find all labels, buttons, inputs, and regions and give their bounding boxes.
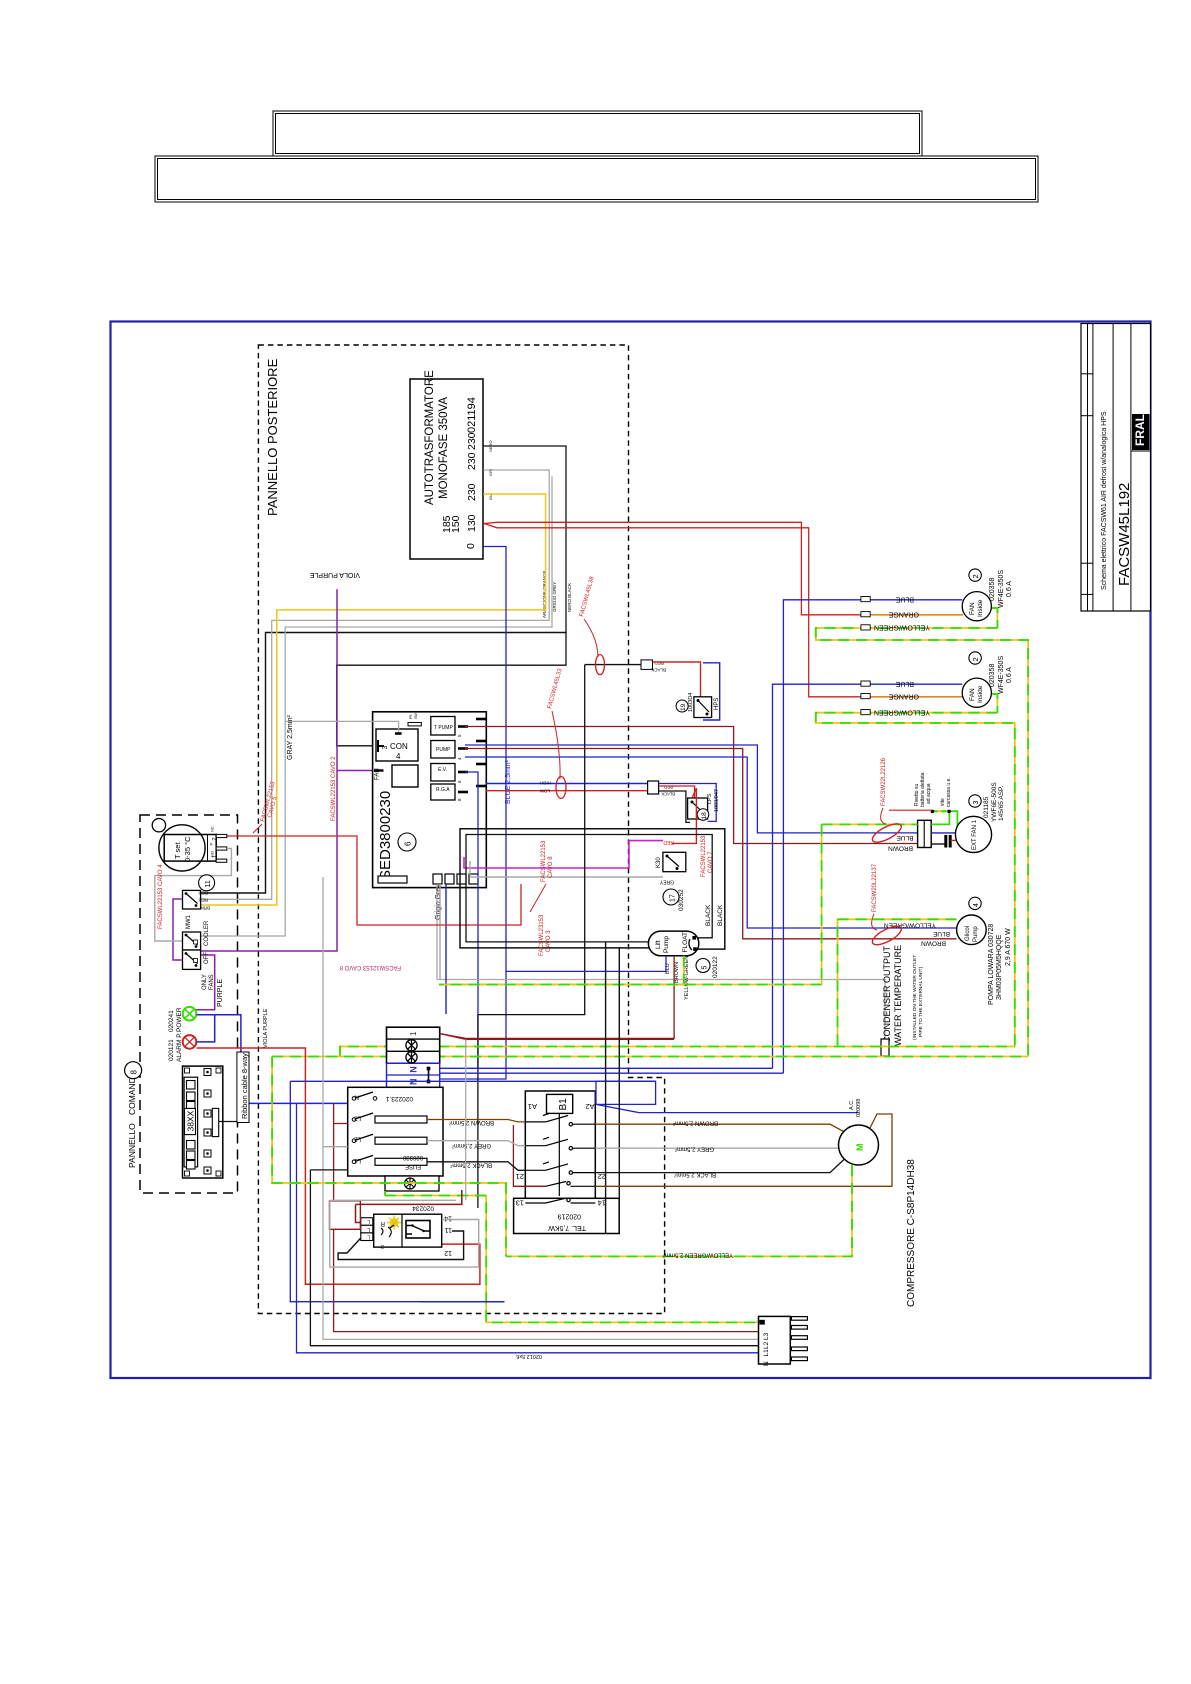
- marker circle 18: [697, 809, 709, 821]
- svg-text:FACSWL22153: FACSWL22153: [701, 835, 707, 877]
- relay box ext fan: [918, 820, 932, 847]
- contactor label box: [514, 1198, 620, 1233]
- wire blue contactor loop: [420, 1081, 859, 1301]
- svg-text:150: 150: [450, 515, 462, 533]
- svg-text:CON: CON: [390, 742, 408, 751]
- svg-text:YELLOW/GREEN 2,5mm²: YELLOW/GREEN 2,5mm²: [663, 1252, 733, 1258]
- svg-text:Lift: Lift: [655, 940, 662, 949]
- contactor K1 TEL 7.5KW body: [525, 1091, 595, 1206]
- svg-text:3: 3: [973, 801, 980, 805]
- wire blue board terminal down: [445, 884, 447, 1014]
- svg-text:Schema elettrico FACSW61 AIR d: Schema elettrico FACSW61 AIR defrost w/a…: [1101, 411, 1108, 590]
- board bottom terminals: [433, 874, 478, 884]
- svg-text:NC: NC: [210, 826, 215, 832]
- svg-text:RED: RED: [663, 839, 674, 845]
- svg-text:L1: L1: [763, 1349, 770, 1357]
- wire black float loop inner: [466, 835, 712, 942]
- relay pin stubs: [458, 719, 486, 792]
- svg-text:230: 230: [466, 452, 478, 470]
- ribbon cable 8-way: [219, 1121, 246, 1123]
- svg-text:BROWN 2,5mm²: BROWN 2,5mm²: [673, 1120, 718, 1126]
- svg-text:COOLER: COOLER: [204, 920, 210, 946]
- svg-text:0.6 A: 0.6 A: [1006, 581, 1013, 597]
- svg-text:4: 4: [396, 752, 401, 761]
- svg-text:Ribbon cable 8-way: Ribbon cable 8-way: [240, 1053, 249, 1119]
- svg-text:ALARM P.: ALARM P.: [176, 1032, 183, 1062]
- svg-text:PANNELLO: PANNELLO: [127, 1123, 137, 1168]
- svg-text:L: L: [367, 1234, 370, 1240]
- cable marker circle 8: [125, 1062, 142, 1079]
- marker circle 11: [199, 875, 215, 891]
- svg-text:NERO BLACK: NERO BLACK: [567, 583, 572, 612]
- relay K30: [656, 839, 686, 885]
- svg-text:GREY 2,5mm²: GREY 2,5mm²: [452, 1142, 491, 1148]
- connector pins: [791, 1317, 807, 1361]
- svg-text:HPS: HPS: [714, 698, 720, 710]
- wire grey K30 return: [470, 861, 663, 877]
- svg-text:17: 17: [670, 894, 677, 902]
- pump M5 Glicol Pump: [957, 915, 987, 945]
- wire purple to power lamp: [197, 955, 215, 1010]
- svg-text:0: 0: [465, 543, 477, 549]
- fan M3 FAN Inside: [962, 678, 991, 707]
- svg-text:OFF: OFF: [204, 952, 210, 964]
- controller board U1 SED3800230: [373, 712, 487, 888]
- pole L1 with fuse: [352, 1155, 427, 1165]
- svg-text:BLACK 2,5mm²: BLACK 2,5mm²: [450, 1162, 492, 1168]
- N link: [428, 1069, 430, 1082]
- wire blue N feeder to connector: [297, 1103, 759, 1352]
- svg-text:CAVO 3: CAVO 3: [546, 930, 552, 952]
- svg-text:BLACK: BLACK: [705, 904, 712, 926]
- wire black 020234 bottom: [338, 1231, 464, 1260]
- svg-text:WF4E-350S: WF4E-350S: [998, 656, 1005, 694]
- svg-text:FACSW20L22137: FACSW20L22137: [872, 863, 878, 912]
- svg-text:02012.5x6: 02012.5x6: [516, 1353, 542, 1359]
- svg-text:YWF6E-500S: YWF6E-500S: [991, 782, 998, 822]
- svg-text:T PUMP: T PUMP: [434, 725, 453, 731]
- wire purple viola bus: [201, 590, 373, 951]
- wire grey board down: [439, 884, 441, 979]
- svg-text:2: 2: [212, 837, 218, 840]
- svg-text:BLACK: BLACK: [661, 792, 675, 797]
- pressure switch HPS: [688, 693, 720, 718]
- temperature probe RT: [881, 1039, 889, 1056]
- wire black contactor to motor: [595, 1159, 844, 1173]
- wire black feeder L1: [310, 1170, 758, 1346]
- wire red thermostat link: [227, 836, 521, 925]
- wire yellow 230V tap: [200, 494, 546, 905]
- wire earth glicol pump: [838, 919, 957, 1046]
- svg-text:ORANGE: ORANGE: [888, 693, 919, 700]
- wire brown lift pump to terminal 1: [439, 956, 674, 1039]
- wire blue LPS loop: [659, 784, 717, 822]
- svg-text:HIGH: HIGH: [540, 781, 551, 786]
- wire grey board to condenser probe: [437, 884, 885, 1039]
- svg-text:L2: L2: [354, 1136, 361, 1142]
- svg-text:11: 11: [205, 880, 212, 887]
- marker circle 2 (fan M3): [969, 652, 981, 664]
- svg-text:L: L: [367, 1226, 370, 1232]
- earth screw link: [932, 810, 949, 812]
- wire earth left riser: [272, 1057, 758, 1323]
- svg-text:020358: 020358: [989, 578, 996, 601]
- wire red alarm to aux: [197, 1048, 480, 1284]
- svg-text:BRN: BRN: [200, 906, 210, 911]
- main switch Q1 020223.1: [348, 1087, 443, 1176]
- svg-text:4: 4: [973, 903, 980, 907]
- title block column lines: [1088, 324, 1131, 612]
- svg-text:GREY: GREY: [659, 879, 674, 885]
- wire grey second bus: [201, 477, 552, 936]
- cable oval marker: [596, 655, 605, 675]
- svg-text:130: 130: [466, 514, 478, 532]
- svg-text:FACSWL22153 CAVO 4: FACSWL22153 CAVO 4: [158, 864, 164, 929]
- wire darkred terminal 1 out: [439, 1034, 674, 1040]
- wire earth motor: [506, 1165, 852, 1256]
- marker circle 2 (fan M2): [969, 569, 981, 581]
- svg-text:RED: RED: [664, 785, 673, 790]
- svg-text:2,9 A 670 W: 2,9 A 670 W: [1005, 928, 1012, 966]
- pole L3 with fuse: [352, 1113, 427, 1123]
- svg-text:020219: 020219: [558, 1213, 581, 1220]
- svg-text:FACSWL45L38: FACSWL45L38: [579, 575, 596, 617]
- svg-text:MONOFASE 350VA: MONOFASE 350VA: [438, 397, 450, 499]
- display board 38XX: [183, 1066, 223, 1178]
- svg-text:BLACK: BLACK: [651, 668, 666, 673]
- board jumper bar: [395, 732, 402, 735]
- svg-text:BLUE: BLUE: [895, 680, 914, 687]
- svg-text:3: 3: [381, 1243, 384, 1249]
- earth terminal box: [385, 1176, 439, 1191]
- wire blue fan M2: [440, 600, 963, 1073]
- svg-text:0-35 °C: 0-35 °C: [183, 836, 192, 862]
- autotransformer T1 box: [410, 379, 483, 559]
- dashed enclosure PANNELLO COMANDE: [140, 815, 238, 1193]
- svg-text:GREY 2,5mm²: GREY 2,5mm²: [675, 1146, 714, 1152]
- board slot: [378, 876, 407, 883]
- svg-text:FACSWL22153: FACSWL22153: [541, 840, 547, 882]
- fan M2 FAN Inside: [962, 592, 991, 621]
- svg-text:21: 21: [516, 1172, 524, 1181]
- ferrules fan M2: [861, 597, 870, 715]
- wire black HPS feed: [585, 664, 641, 666]
- title block row dividers: [1081, 374, 1151, 595]
- svg-text:M: M: [855, 1144, 865, 1152]
- wire red rivet lead: [889, 809, 932, 811]
- svg-text:PANNELLO POSTERIORE: PANNELLO POSTERIORE: [265, 358, 280, 516]
- wire blue feeder N: [290, 1081, 655, 1301]
- wire black fuse to contactor: [427, 1162, 525, 1171]
- svg-text:19: 19: [680, 703, 687, 711]
- grey loop 020234: [330, 1200, 479, 1267]
- svg-text:L: L: [367, 1218, 370, 1224]
- svg-text:L1: L1: [354, 1157, 361, 1163]
- led dots: [204, 1069, 211, 1175]
- wire darkred T PUMP to ext fan: [465, 727, 918, 844]
- svg-text:BLUE: BLUE: [932, 930, 950, 937]
- wire red capacitor to fan: [951, 839, 957, 841]
- svg-text:6: 6: [404, 841, 413, 846]
- svg-text:SW: SW: [414, 713, 418, 719]
- svg-text:145/65 ASP.: 145/65 ASP.: [998, 786, 1005, 821]
- svg-text:PURPLE: PURPLE: [217, 979, 224, 1007]
- svg-text:CONDENSER OUTPUT: CONDENSER OUTPUT: [882, 945, 892, 1043]
- wire blue lift pump: [506, 956, 666, 972]
- svg-text:COMPRESSORE C-S8P14DH38: COMPRESSORE C-S8P14DH38: [906, 1159, 917, 1307]
- terminals left: [361, 1218, 373, 1241]
- cable oval marker: [556, 777, 566, 799]
- terminal block X1: [387, 1027, 440, 1063]
- svg-text:Inside: Inside: [977, 599, 984, 617]
- svg-text:FUSE: FUSE: [405, 1163, 421, 1169]
- wire red 130V pair to fans: [484, 522, 861, 615]
- wire blue relay to ext fan: [465, 745, 918, 833]
- svg-text:021185: 021185: [983, 796, 990, 818]
- svg-text:YELLOW-GREEN: YELLOW-GREEN: [684, 956, 690, 1000]
- marker circle 19: [676, 700, 688, 712]
- wire blue relay to glicol pump: [465, 757, 957, 928]
- title block outline: [1081, 324, 1151, 612]
- svg-text:A.C.: A.C.: [849, 1099, 855, 1110]
- selector switch SW2 MW1 COOLER: [183, 914, 211, 950]
- selector switch SW3 ONLY FANS: [183, 950, 216, 990]
- svg-text:FANS: FANS: [209, 974, 215, 990]
- svg-text:FACSWL45L33: FACSWL45L33: [547, 667, 564, 709]
- svg-text:MW1: MW1: [186, 914, 192, 929]
- svg-text:Inside: Inside: [977, 685, 984, 703]
- svg-text:GRIGIO GREY: GRIGIO GREY: [552, 582, 557, 612]
- svg-text:N: N: [409, 1066, 419, 1073]
- pole L2 with fuse: [352, 1134, 427, 1144]
- wire black bus to panel switch: [201, 633, 566, 894]
- svg-text:BROWN 2,5mm²: BROWN 2,5mm²: [449, 1119, 494, 1125]
- connector LPS leads: [648, 781, 659, 794]
- contact block: [406, 1221, 430, 1239]
- svg-text:PIPE TO THE EXTERNAL UNIT): PIPE TO THE EXTERNAL UNIT): [918, 966, 924, 1037]
- marker circle 17: [663, 889, 679, 905]
- wire brown motor loop: [595, 1114, 892, 1186]
- wire darkred PUMP to glicol pump: [465, 749, 957, 939]
- wire blue fan M3: [440, 684, 963, 1068]
- svg-text:Pump: Pump: [663, 936, 670, 953]
- svg-text:FAN: FAN: [969, 602, 976, 615]
- marker circle 5: [696, 959, 710, 973]
- svg-text:TEL. 7,5KW: TEL. 7,5KW: [548, 1224, 586, 1231]
- wire magenta board to K30: [464, 841, 663, 868]
- wire blue lamp link: [197, 1015, 348, 1104]
- svg-text:8: 8: [130, 1070, 139, 1075]
- svg-text:020098: 020098: [856, 1099, 862, 1117]
- svg-text:22: 22: [598, 1172, 606, 1181]
- svg-text:A2: A2: [585, 1102, 594, 1111]
- svg-text:1: 1: [212, 855, 218, 858]
- svg-text:FACSWL22153 CAVO 2: FACSWL22153 CAVO 2: [331, 756, 337, 821]
- pump P1 Lift Pump with float: [648, 931, 698, 956]
- wire black box to capacitor: [931, 843, 945, 845]
- relay K PUMP: [431, 741, 455, 759]
- svg-text:BROWN: BROWN: [888, 845, 913, 852]
- svg-text:020358: 020358: [989, 664, 996, 687]
- coil B1: [547, 1094, 573, 1113]
- title bar lower: [155, 156, 1038, 202]
- lamp H2 ALARM: [168, 1032, 196, 1062]
- lamp H1 POWER: [168, 1007, 196, 1032]
- capacitor C1 plates: [946, 835, 950, 848]
- svg-text:FLOAT: FLOAT: [682, 932, 689, 952]
- svg-text:1003D4: 1003D4: [688, 693, 694, 712]
- svg-text:VIOLA PURPLE: VIOLA PURPLE: [263, 1008, 269, 1048]
- svg-text:020121: 020121: [168, 1039, 175, 1061]
- svg-text:LPS: LPS: [707, 793, 713, 804]
- svg-text:EXT FAN 1: EXT FAN 1: [972, 819, 978, 850]
- svg-text:FRAL: FRAL: [1133, 414, 1147, 446]
- thermostat RT1 T set body: [164, 835, 216, 862]
- aux contact 21-22: [525, 1182, 595, 1187]
- svg-text:RED: RED: [654, 661, 664, 666]
- svg-text:CAVO 7: CAVO 7: [708, 851, 714, 873]
- CON pin stub: [378, 740, 384, 752]
- svg-text:0.6 A: 0.6 A: [1006, 667, 1013, 683]
- aux contact 13-14: [525, 1198, 595, 1203]
- wire blue EV to N terminal: [465, 772, 478, 1068]
- svg-text:020223.1: 020223.1: [386, 1095, 413, 1102]
- svg-text:carcassa u.e.: carcassa u.e.: [946, 777, 952, 807]
- svg-text:030252: 030252: [678, 889, 685, 911]
- svg-text:RED: RED: [198, 898, 208, 903]
- wire earth fan M2: [816, 608, 1028, 1057]
- svg-text:2: 2: [971, 574, 980, 578]
- wire blue HPS loop: [703, 663, 720, 720]
- svg-text:YELLOW/GREEN: YELLOW/GREEN: [874, 709, 930, 716]
- wire red LOW pressure lead: [486, 790, 648, 792]
- svg-text:5: 5: [702, 966, 709, 970]
- svg-text:ORANGE: ORANGE: [888, 611, 919, 618]
- wire black LPS left loop: [659, 791, 690, 822]
- lamp sunburst: [387, 1216, 401, 1230]
- corner holes: [185, 1068, 222, 1176]
- cable oval marker ext fan: [870, 820, 904, 846]
- pressure switch LPS: [688, 798, 708, 819]
- wire darkred feeder L3: [334, 1103, 759, 1332]
- ribbon connector: [212, 1108, 218, 1136]
- darkred connector outline: [330, 1201, 361, 1230]
- svg-text:FACSWL23153: FACSWL23153: [539, 914, 545, 956]
- wire grey thermostat to switch: [155, 849, 232, 942]
- marker circle 3: [969, 795, 981, 807]
- wire grey aux riser: [465, 1039, 467, 1200]
- thermostat pins: [216, 834, 227, 862]
- wire black 230V tap bus: [337, 446, 566, 746]
- connector block lower: [392, 765, 418, 787]
- wire grey feeder L2: [323, 877, 759, 1339]
- svg-text:BROWN: BROWN: [921, 940, 946, 947]
- svg-text:SED3800230: SED3800230: [377, 791, 394, 880]
- pole N: [352, 1092, 377, 1100]
- svg-text:230: 230: [466, 432, 478, 450]
- svg-text:14: 14: [444, 1215, 452, 1222]
- svg-text:YELLOW/GREEN: YELLOW/GREEN: [874, 624, 930, 631]
- svg-text:BLACK: BLACK: [717, 904, 724, 926]
- title bar upper: [273, 111, 922, 156]
- svg-text:L3: L3: [763, 1332, 770, 1340]
- svg-text:230: 230: [466, 483, 478, 501]
- svg-text:Grigio Grey: Grigio Grey: [435, 884, 442, 920]
- wire red ferrule to LPS: [659, 786, 695, 804]
- relay K EV: [431, 764, 455, 782]
- mains connector X2: [759, 1316, 791, 1364]
- wire black tank risers: [606, 942, 620, 1234]
- svg-text:VIOLA PURPLE: VIOLA PURPLE: [309, 571, 360, 578]
- svg-text:K30: K30: [656, 857, 662, 868]
- svg-text:FACSW22L22126: FACSW22L22126: [881, 757, 887, 806]
- wire blue 0V tap to N: [439, 547, 506, 1080]
- wire grey fuse to contactor: [427, 1141, 525, 1146]
- svg-text:12: 12: [444, 1249, 452, 1256]
- svg-text:AUTOTRASFORMATORE: AUTOTRASFORMATORE: [424, 370, 436, 505]
- svg-text:2: 2: [971, 657, 980, 661]
- wire red ferrule to HPS: [653, 662, 701, 697]
- ferrule HPS: [641, 660, 653, 670]
- connector CON 4: [376, 729, 418, 761]
- fan M4 EXT FAN 1: [955, 816, 991, 852]
- wire black float loop outer: [460, 829, 725, 949]
- FRAL logo: [1132, 414, 1150, 450]
- labels fan M2 wires: [874, 596, 930, 716]
- svg-text:020234: 020234: [412, 1205, 434, 1212]
- svg-text:3HM03P05M5HQQE: 3HM03P05M5HQQE: [996, 934, 1003, 1000]
- svg-text:020122: 020122: [712, 956, 719, 978]
- pin labels: [763, 1332, 770, 1366]
- svg-text:PUMP: PUMP: [436, 747, 451, 753]
- wire earth lift pump: [439, 956, 684, 985]
- selector switch SW1: [183, 890, 211, 910]
- svg-text:1003/047: 1003/047: [714, 789, 720, 812]
- svg-text:WATER TEMPERATURE: WATER TEMPERATURE: [893, 945, 903, 1046]
- svg-text:Pump: Pump: [973, 926, 979, 942]
- relay lamp unit 020234: [361, 1205, 452, 1257]
- wire black N-link riser: [478, 665, 585, 1208]
- svg-text:FACSW12153 CAVO 8: FACSW12153 CAVO 8: [339, 964, 401, 970]
- wire brown contactor to motor: [595, 1124, 844, 1132]
- svg-text:13: 13: [516, 1199, 524, 1208]
- svg-text:POMPA LOWARA 030728: POMPA LOWARA 030728: [988, 924, 995, 1005]
- wire blue HIGH pressure lead: [486, 783, 648, 785]
- wire orange fan M2: [861, 614, 963, 616]
- dashed enclosure PANNELLO POSTERIORE: [258, 345, 664, 1314]
- svg-text:BLUE: BLUE: [895, 596, 914, 603]
- marker circle 6: [398, 833, 416, 851]
- marker circle 4: [969, 897, 981, 909]
- svg-text:1: 1: [409, 1031, 418, 1036]
- svg-text:BLUE 2,5mm²: BLUE 2,5mm²: [505, 759, 512, 804]
- wire darkred coil A1 drop: [513, 1125, 545, 1186]
- svg-text:FAN: FAN: [969, 688, 976, 701]
- svg-text:R.G.A: R.G.A: [436, 787, 450, 793]
- terminal PE symbols: [406, 1040, 417, 1063]
- svg-text:N: N: [763, 1361, 770, 1366]
- svg-text:T set: T set: [173, 842, 182, 859]
- svg-text:A1: A1: [528, 1102, 537, 1111]
- svg-text:(INSTALLED ON THE WATER OUTLET: (INSTALLED ON THE WATER OUTLET: [912, 955, 918, 1040]
- svg-text:FACSW45L192: FACSW45L192: [1116, 483, 1133, 586]
- relay pin numbers: [457, 734, 462, 801]
- svg-text:P: P: [209, 843, 214, 846]
- svg-text:BLACK 2,5mm²: BLACK 2,5mm²: [674, 1171, 716, 1177]
- wire purple switch jumper: [173, 899, 183, 960]
- wire red LPS to K30: [672, 788, 696, 843]
- svg-text:ONLY: ONLY: [202, 974, 208, 990]
